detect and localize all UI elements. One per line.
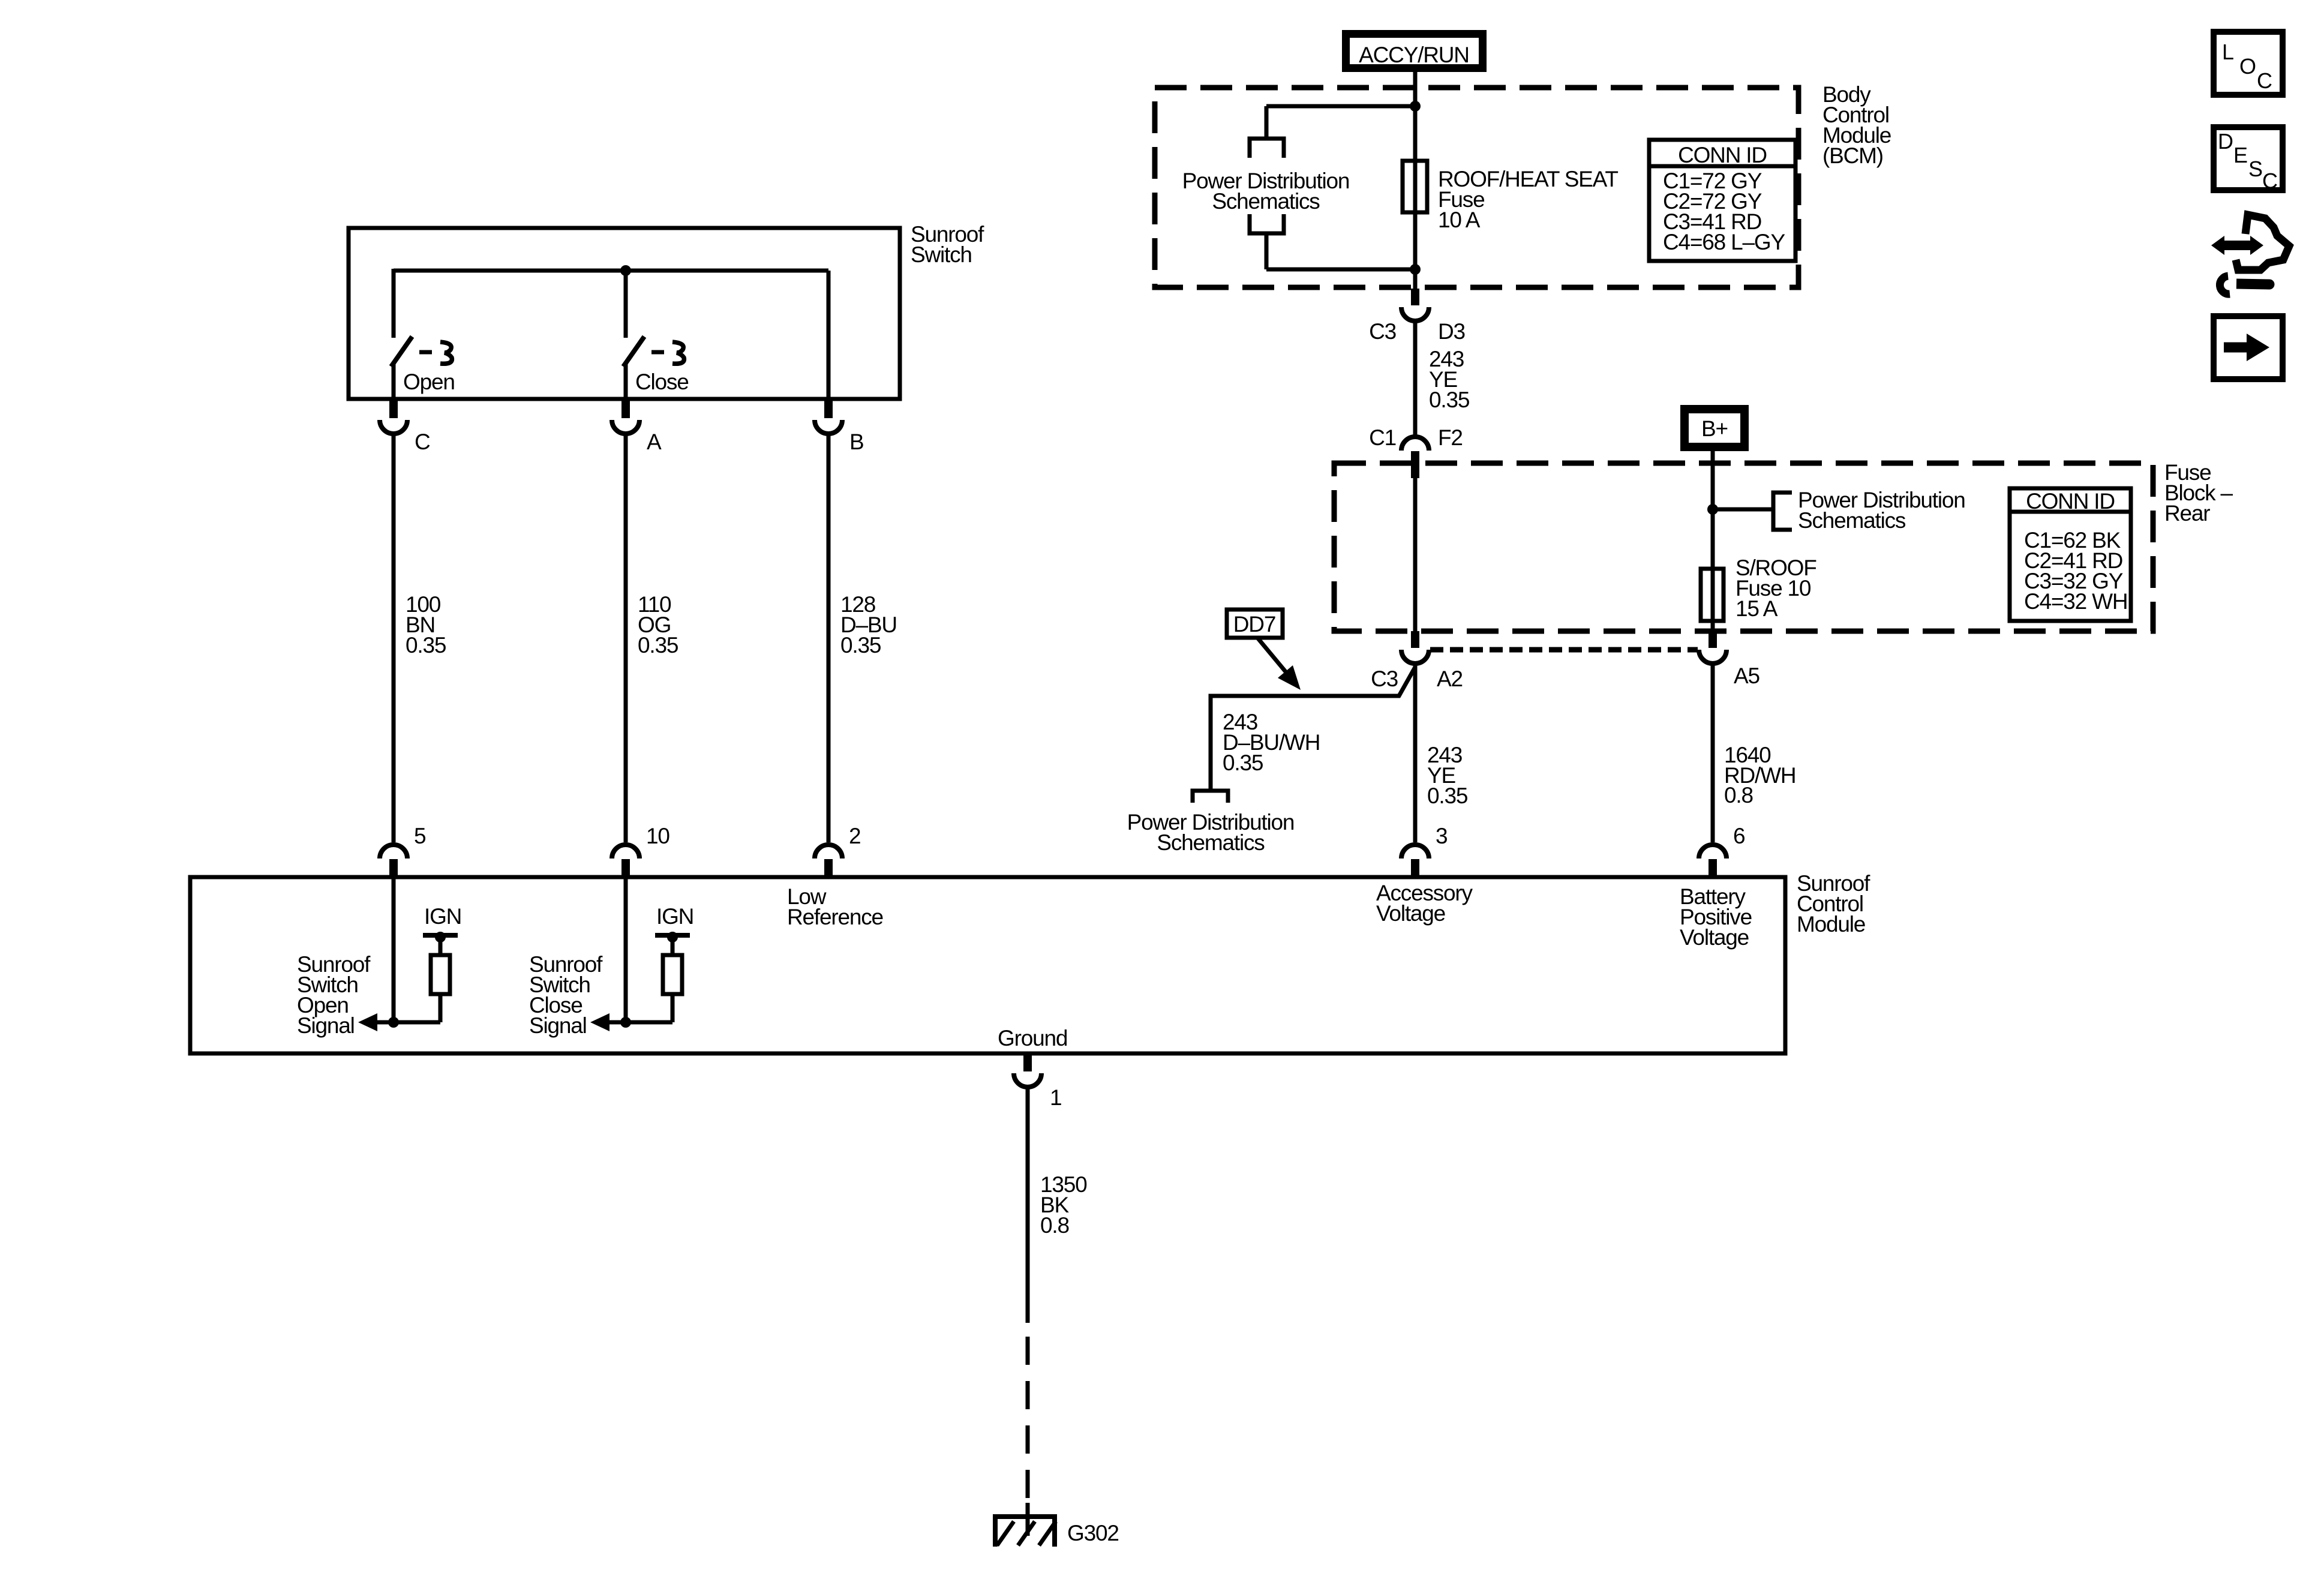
svg-text:O: O <box>2239 54 2256 79</box>
svg-text:D: D <box>2218 129 2233 154</box>
svg-text:3: 3 <box>1436 824 1447 848</box>
svg-text:Signal: Signal <box>297 1013 355 1038</box>
svg-text:S: S <box>2248 157 2262 181</box>
svg-text:0.35: 0.35 <box>406 633 446 658</box>
svg-text:Rear: Rear <box>2164 501 2210 526</box>
svg-text:A2: A2 <box>1437 667 1463 691</box>
svg-text:0.35: 0.35 <box>1429 388 1470 412</box>
svg-text:E: E <box>2233 143 2247 167</box>
svg-text:C3: C3 <box>1371 667 1398 691</box>
svg-text:C: C <box>2257 68 2272 93</box>
svg-text:L: L <box>2222 40 2233 64</box>
svg-text:B+: B+ <box>1701 416 1728 441</box>
svg-text:Schematics: Schematics <box>1157 830 1265 855</box>
svg-text:2: 2 <box>849 824 860 848</box>
svg-text:A5: A5 <box>1734 664 1759 688</box>
svg-text:0.35: 0.35 <box>1223 751 1263 775</box>
svg-text:(BCM): (BCM) <box>1822 143 1883 168</box>
svg-text:Module: Module <box>1797 912 1865 936</box>
svg-text:IGN: IGN <box>656 904 693 929</box>
svg-text:0.35: 0.35 <box>638 633 678 658</box>
svg-text:Signal: Signal <box>529 1013 587 1038</box>
svg-text:Schematics: Schematics <box>1212 189 1320 214</box>
svg-text:0.8: 0.8 <box>1040 1213 1069 1238</box>
svg-text:G302: G302 <box>1067 1521 1119 1545</box>
svg-text:D3: D3 <box>1438 319 1465 344</box>
svg-text:0.35: 0.35 <box>840 633 881 658</box>
svg-text:Schematics: Schematics <box>1798 508 1906 533</box>
svg-text:C1: C1 <box>1369 425 1396 450</box>
svg-text:Reference: Reference <box>787 905 883 929</box>
svg-text:DD7: DD7 <box>1233 612 1275 637</box>
svg-text:0.35: 0.35 <box>1427 784 1468 808</box>
svg-text:C3: C3 <box>1369 319 1396 344</box>
svg-text:B: B <box>849 430 863 454</box>
svg-text:10: 10 <box>646 824 669 848</box>
svg-text:Ground: Ground <box>998 1026 1067 1050</box>
svg-text:10 A: 10 A <box>1438 208 1481 232</box>
svg-text:C: C <box>2262 169 2277 193</box>
svg-text:Open: Open <box>403 370 455 394</box>
svg-text:C4=68 L–GY: C4=68 L–GY <box>1663 230 1785 254</box>
svg-text:0.8: 0.8 <box>1724 783 1753 807</box>
svg-text:Switch: Switch <box>911 242 972 267</box>
svg-text:F2: F2 <box>1438 425 1463 450</box>
svg-text:6: 6 <box>1733 824 1744 848</box>
svg-text:ACCY/RUN: ACCY/RUN <box>1359 43 1469 67</box>
svg-text:IGN: IGN <box>424 904 461 929</box>
svg-text:CONN ID: CONN ID <box>1678 143 1767 167</box>
svg-text:1: 1 <box>1050 1085 1061 1110</box>
svg-text:Close: Close <box>635 370 689 394</box>
svg-text:Voltage: Voltage <box>1376 901 1445 926</box>
svg-text:15 A: 15 A <box>1736 596 1778 621</box>
svg-text:Voltage: Voltage <box>1680 925 1749 950</box>
svg-text:C: C <box>415 430 430 454</box>
svg-text:5: 5 <box>414 824 426 848</box>
svg-text:C4=32 WH: C4=32 WH <box>2024 589 2127 614</box>
svg-text:A: A <box>647 430 662 454</box>
svg-text:CONN ID: CONN ID <box>2026 489 2115 514</box>
